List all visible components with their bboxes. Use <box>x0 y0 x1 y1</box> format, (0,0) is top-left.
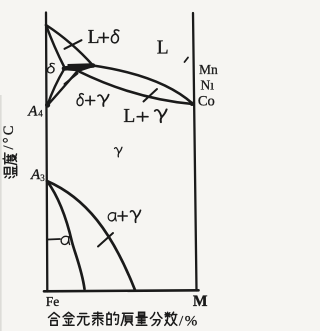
label L+delta <box>88 27 119 48</box>
glyph SU (element) <box>92 312 103 326</box>
label L+gamma <box>123 106 166 127</box>
glyph SHU (number) <box>165 312 177 325</box>
tick across lower lens line (L+gamma leader) <box>144 89 158 102</box>
svg-text:L: L <box>157 38 169 59</box>
svg-text:Co: Co <box>198 94 215 110</box>
tick across outer curve (alpha+gamma leader) <box>98 233 113 247</box>
svg-text:/°C: /°C <box>1 123 17 149</box>
y-axis title glyph WEN (temperature) rotated <box>4 166 16 178</box>
label alpha (single, alpha field) <box>61 236 69 244</box>
glyph ZHI (mass) <box>121 313 133 325</box>
gamma / alpha+gamma boundary from A3 (outer curve) <box>47 181 135 290</box>
liquidus line from A to peritectic liquid point <box>46 25 93 66</box>
glyph HE (join) <box>49 313 60 326</box>
faint scanner edge at left <box>0 95 2 331</box>
svg-text:M: M <box>193 293 208 310</box>
delta solidus line from A to peritectic delta point <box>46 25 65 68</box>
delta+gamma / gamma boundary down to A4 <box>47 72 77 106</box>
small speck near right axis <box>185 58 189 63</box>
label delta (single, in delta field) <box>47 63 54 73</box>
left axis (temperature axis) <box>46 13 47 292</box>
glyph YUAN (element) <box>77 314 89 326</box>
tick across liquidus (L+delta leader) <box>65 40 82 49</box>
peritectic blob fattener <box>68 63 94 71</box>
peritectic line (thick junction blob) <box>64 66 93 69</box>
svg-text:/%: /% <box>179 314 199 330</box>
alpha+gamma / alpha boundary from A3 (inner curve) <box>47 181 85 289</box>
tick across delta+gamma sliver <box>65 74 78 85</box>
label delta+gamma <box>77 94 109 107</box>
svg-text:L: L <box>123 106 135 127</box>
svg-text:Nı: Nı <box>201 78 215 93</box>
glyph LIANG (quantity) <box>136 312 147 325</box>
svg-text:A: A <box>27 104 38 120</box>
delta / delta+gamma boundary down to A4 <box>47 69 64 106</box>
label gamma (single, gamma field) <box>114 147 121 157</box>
svg-text:Fe: Fe <box>46 294 60 309</box>
glyph DE (of) <box>107 312 119 325</box>
x-axis title hand-drawn CJK glyphs <box>49 312 177 326</box>
A4 junction knot <box>45 102 50 107</box>
svg-text:Mn: Mn <box>199 62 218 77</box>
svg-text:4: 4 <box>38 109 43 119</box>
glyph JIN (metal) <box>63 312 74 325</box>
label A4 on left axis <box>27 104 43 120</box>
glyph FEN (fraction) <box>150 313 162 326</box>
label A3 on left axis <box>30 167 45 183</box>
bottom axis (composition axis) <box>44 290 199 291</box>
right axis <box>193 13 197 291</box>
label alpha+gamma <box>108 210 140 222</box>
right lens convergence knot <box>190 102 194 106</box>
gamma liquidus (upper boundary of L+gamma lens) <box>93 66 193 104</box>
y-axis title glyph DU (degree) rotated <box>3 153 17 165</box>
alpha label leader line <box>48 238 60 241</box>
svg-text:L: L <box>88 27 100 48</box>
gamma solidus (lower boundary of L+gamma lens) <box>78 71 193 104</box>
svg-text:3: 3 <box>40 173 45 183</box>
paper background <box>0 0 223 331</box>
